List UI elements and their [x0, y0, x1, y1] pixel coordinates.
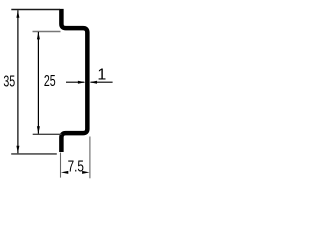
- svg-text:25: 25: [44, 73, 56, 90]
- svg-text:1: 1: [97, 67, 106, 84]
- svg-text:35: 35: [3, 74, 15, 91]
- svg-text:7.5: 7.5: [68, 159, 84, 176]
